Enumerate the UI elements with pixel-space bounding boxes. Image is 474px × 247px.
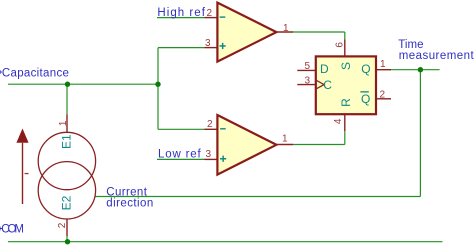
svg-text:3: 3 xyxy=(206,149,212,160)
svg-text:High ref: High ref xyxy=(157,7,205,19)
svg-text:Q: Q xyxy=(361,62,370,76)
svg-text:Capacitance: Capacitance xyxy=(2,68,69,80)
svg-text:D: D xyxy=(320,62,329,76)
svg-text:1: 1 xyxy=(380,59,386,70)
svg-text:5: 5 xyxy=(305,61,311,72)
svg-text:S: S xyxy=(339,62,353,70)
svg-text:6: 6 xyxy=(335,42,346,48)
svg-text:2: 2 xyxy=(380,89,386,100)
svg-text:1: 1 xyxy=(283,23,289,34)
svg-text:1: 1 xyxy=(58,120,69,126)
svg-text:direction: direction xyxy=(106,198,153,210)
svg-text:COM: COM xyxy=(1,224,24,236)
svg-text:4: 4 xyxy=(333,118,344,124)
svg-text:Q: Q xyxy=(361,92,370,106)
svg-text:3: 3 xyxy=(305,75,311,86)
svg-text:E1: E1 xyxy=(59,134,73,149)
svg-text:C: C xyxy=(323,78,332,92)
svg-text:R: R xyxy=(339,98,353,107)
svg-text:2: 2 xyxy=(207,119,213,130)
svg-text:measurement: measurement xyxy=(399,50,474,62)
svg-text:3: 3 xyxy=(205,38,211,49)
svg-text:Low ref: Low ref xyxy=(158,148,201,160)
svg-text:1: 1 xyxy=(282,134,288,145)
svg-text:E2: E2 xyxy=(59,195,73,210)
svg-text:Current: Current xyxy=(106,186,147,198)
svg-text:2: 2 xyxy=(57,222,68,228)
svg-text:2: 2 xyxy=(207,8,213,19)
